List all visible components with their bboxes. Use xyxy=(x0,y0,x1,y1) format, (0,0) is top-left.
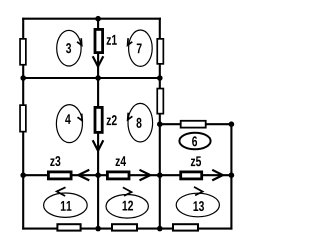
resistor bottom 1 xyxy=(57,224,80,230)
loop 11 ellipse xyxy=(44,187,88,217)
node zrow-far-right xyxy=(229,172,235,178)
label z5 xyxy=(191,156,201,166)
loop 3 ellipse xyxy=(57,30,82,66)
wire far right branch xyxy=(230,124,232,229)
resistor left lower xyxy=(20,105,26,131)
node divider-left xyxy=(20,75,26,81)
loop 6 ellipse xyxy=(179,133,210,150)
node bottom-middle xyxy=(95,226,101,232)
node divider-right xyxy=(157,75,163,81)
node zrow-left xyxy=(20,172,26,178)
node loop6-top-right xyxy=(229,121,235,127)
impedance z3 xyxy=(48,172,71,179)
wire z-row xyxy=(23,174,231,176)
resistor right lower xyxy=(157,89,163,114)
resistor left upper xyxy=(20,39,26,65)
node top-middle xyxy=(95,16,101,22)
label z1 xyxy=(107,35,117,45)
node bottom-right xyxy=(157,226,163,232)
label z2 xyxy=(107,115,117,125)
node divider-middle xyxy=(95,75,101,81)
arrow current z4 (right) xyxy=(140,170,151,181)
impedance z2 xyxy=(95,107,102,132)
arrow current z1 (down) xyxy=(93,56,104,66)
loop 12 ellipse xyxy=(106,187,148,218)
arrow current z3 (left) xyxy=(78,170,89,181)
node zrow-middle xyxy=(95,172,101,178)
impedance z1 xyxy=(95,29,103,52)
wire bottom xyxy=(22,228,232,230)
node loop6-top-left xyxy=(157,121,163,127)
impedance z5 xyxy=(181,172,202,179)
impedance z4 xyxy=(107,172,129,179)
wire middle branch (z1/z2) xyxy=(97,18,99,228)
arrow current z2 (down) xyxy=(93,140,104,150)
loop 7 ellipse xyxy=(128,30,153,66)
wire loop-6 top xyxy=(160,123,232,125)
resistor right upper xyxy=(157,39,163,64)
wire right branch xyxy=(159,18,161,230)
resistor bottom 3 xyxy=(173,224,198,230)
resistor bottom 2 xyxy=(112,224,137,230)
node zrow-right xyxy=(157,172,163,178)
loop 4 ellipse xyxy=(56,105,82,143)
resistor loop-6 top xyxy=(181,121,206,128)
wire row divider xyxy=(23,77,160,79)
wire left branch xyxy=(22,18,24,230)
label z3 xyxy=(50,156,60,166)
loop 13 ellipse xyxy=(176,187,219,217)
wire top xyxy=(22,18,161,20)
label z4 xyxy=(116,156,126,166)
loop 8 ellipse xyxy=(128,103,153,142)
arrow current z5 (right) xyxy=(212,170,223,181)
